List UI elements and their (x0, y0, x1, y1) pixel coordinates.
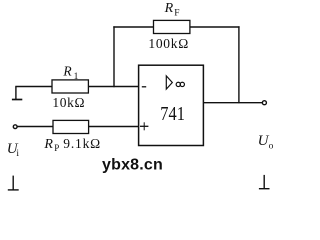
ground tack below Uo (259, 175, 270, 189)
wire feedback top-right horizontal (190, 26, 240, 28)
svg-text:o: o (269, 142, 274, 152)
resistor R1 (box) (52, 80, 88, 93)
svg-text:R: R (164, 1, 174, 16)
ground tack below Ui (8, 176, 19, 190)
svg-text:100kΩ: 100kΩ (148, 36, 189, 51)
op-amp gain triangle symbol (166, 76, 172, 89)
output terminal (open circle) (262, 101, 266, 105)
svg-text:ybx8.cn: ybx8.cn (102, 157, 163, 174)
label RP 9.1k ohm (43, 136, 101, 153)
wire R1 to op-amp inverting input (89, 86, 139, 88)
op-amp inverting input minus sign (142, 86, 146, 88)
label R1 (62, 63, 78, 82)
input terminal (open circle) (13, 125, 17, 129)
svg-text:R: R (43, 137, 53, 152)
svg-text:P: P (54, 143, 59, 153)
label RF (164, 1, 180, 19)
svg-text:R: R (62, 63, 72, 78)
wire feedback left vertical (node A down to inverting input) (113, 26, 115, 87)
wire ground to R1 (15, 86, 52, 88)
wire input terminal to RP (17, 126, 53, 128)
op-amp non-inverting input plus sign (140, 122, 148, 130)
svg-text:9.1kΩ: 9.1kΩ (63, 136, 101, 151)
wire feedback right vertical down to output node (238, 26, 240, 103)
wire op-amp output to output terminal (204, 102, 263, 104)
label Uo (258, 133, 274, 152)
wire feedback top-left horizontal (113, 26, 153, 28)
resistor RF (box) (154, 20, 190, 33)
svg-text:i: i (16, 149, 19, 159)
wire RP to op-amp non-inverting input (89, 126, 139, 128)
svg-text:1: 1 (74, 72, 79, 82)
svg-text:10kΩ: 10kΩ (52, 95, 85, 110)
ground (input ground symbol at left of R1) (12, 87, 22, 100)
label Ui (7, 141, 20, 159)
op-amp infinity symbol (176, 82, 184, 86)
resistor RP (box) (53, 120, 89, 133)
svg-text:741: 741 (160, 103, 185, 125)
op-amp U1 741 (rectangle body) (139, 65, 204, 145)
svg-text:F: F (174, 8, 179, 18)
